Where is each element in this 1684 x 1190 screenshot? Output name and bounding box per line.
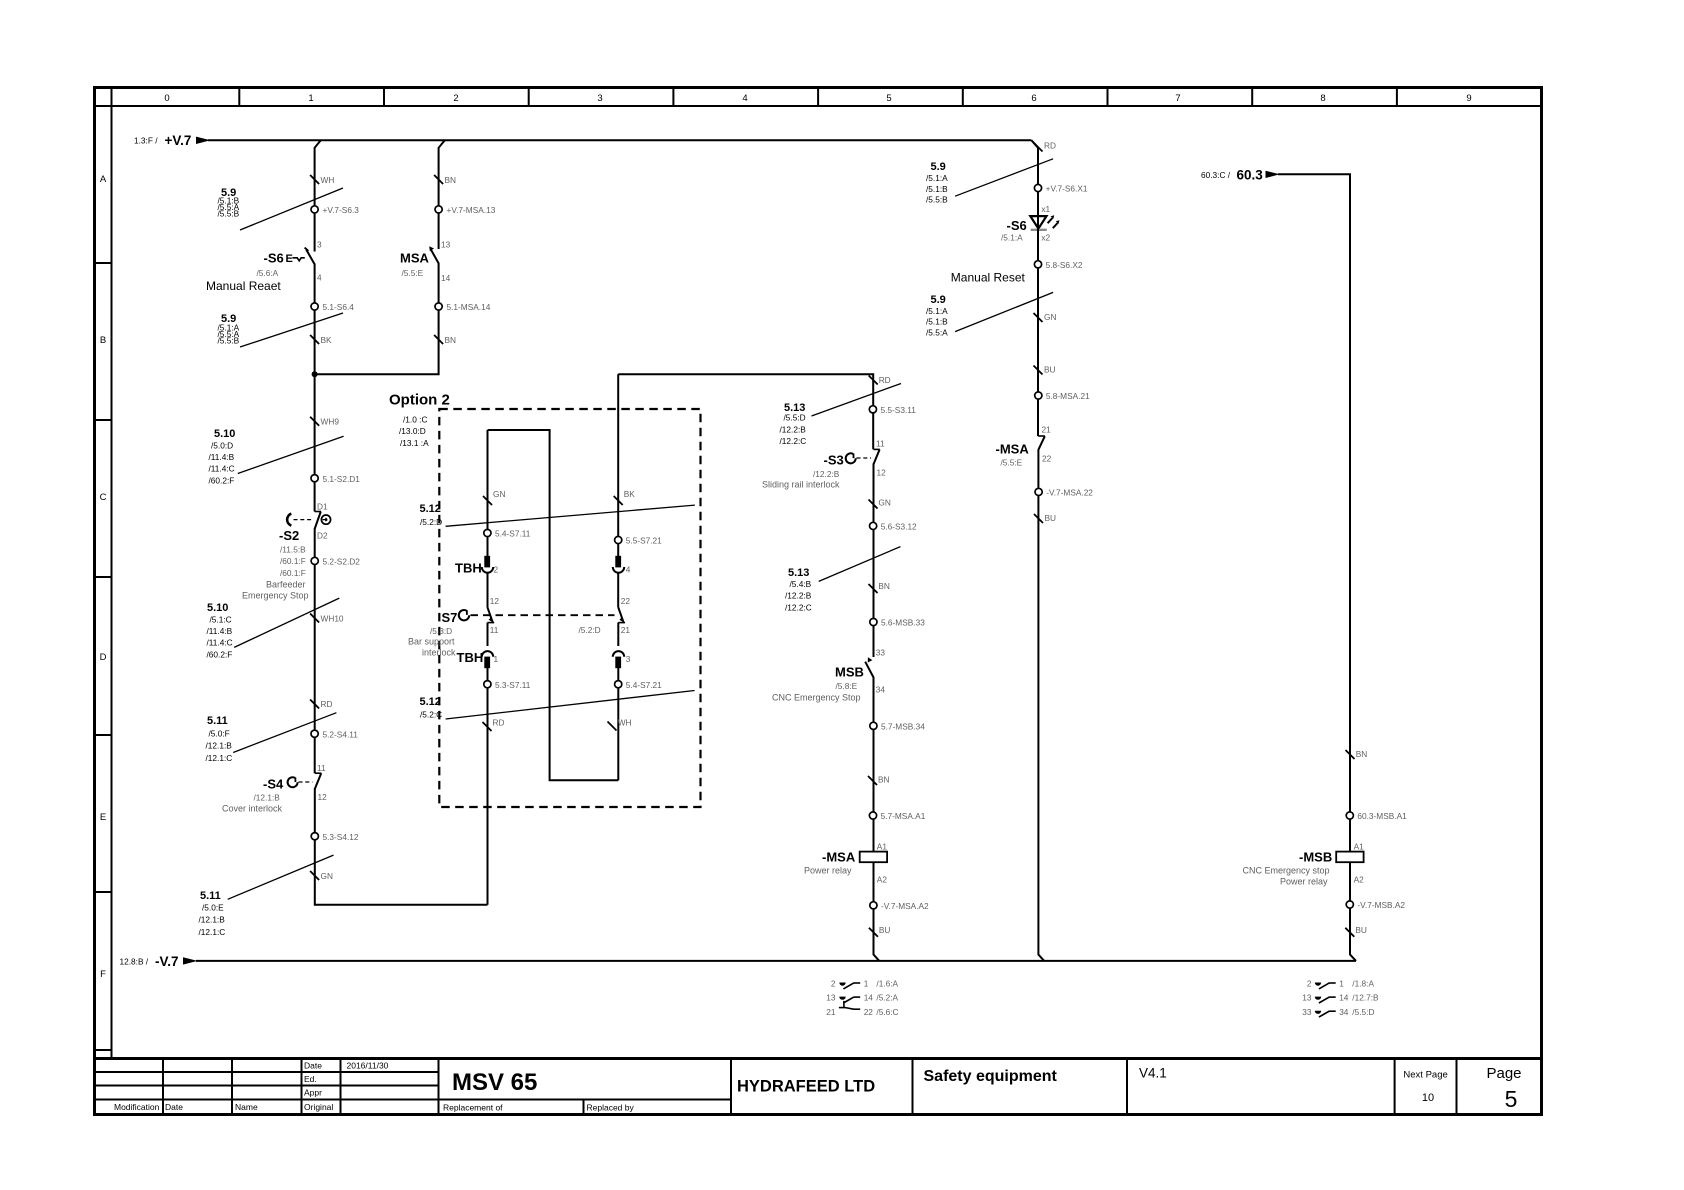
node 5.8-S6.X2 [1034, 260, 1082, 270]
cross-reference 5.12 (lower) [420, 691, 695, 720]
svg-text:/5.5:B: /5.5:B [926, 195, 948, 205]
svg-text:4: 4 [742, 93, 747, 104]
lamp TBH 4 (upper right) [613, 556, 631, 575]
svg-text:/5.5:E: /5.5:E [402, 268, 424, 278]
wire colour mark GN [869, 498, 891, 509]
svg-text:14: 14 [441, 273, 451, 283]
node 60.3-MSB.A1 [1346, 811, 1407, 821]
svg-text:3: 3 [597, 93, 602, 104]
node 5.5-S7.21 [615, 536, 663, 546]
svg-text:/12.2:C: /12.2:C [785, 603, 812, 613]
node +V.7-MSA.13 [435, 205, 496, 215]
svg-text:/60.1:F: /60.1:F [280, 568, 306, 578]
wire colour mark GN [1034, 312, 1057, 322]
svg-text:-MSB: -MSB [1299, 850, 1332, 865]
svg-text:5.1-MSA.14: 5.1-MSA.14 [447, 302, 491, 312]
wire: +V.7 rail end corner down to LED S6 [1032, 140, 1039, 230]
svg-text:/5.5:E: /5.5:E [1001, 458, 1023, 468]
wire colour mark BU [1345, 925, 1367, 937]
svg-text:5.11: 5.11 [200, 890, 221, 902]
svg-text:GN: GN [493, 489, 505, 499]
svg-text:/5.1:A: /5.1:A [926, 173, 948, 183]
wire colour mark GN [483, 489, 505, 505]
svg-text:5.5-S3.11: 5.5-S3.11 [881, 405, 917, 415]
svg-text:CNC Emergency stop: CNC Emergency stop [1243, 866, 1330, 876]
svg-text:Name: Name [235, 1102, 258, 1112]
svg-text:33: 33 [1302, 1007, 1312, 1017]
svg-text:5.1-S2.D1: 5.1-S2.D1 [323, 474, 361, 484]
svg-text:Replacement of: Replacement of [443, 1103, 503, 1113]
svg-text:F: F [100, 969, 106, 980]
svg-text:/13.1 :A: /13.1 :A [400, 438, 429, 448]
svg-text:60.3:C /: 60.3:C / [1201, 170, 1231, 180]
svg-text:5.2-S4.11: 5.2-S4.11 [323, 729, 359, 739]
svg-text:4: 4 [626, 565, 631, 575]
svg-text:Sliding rail interlock: Sliding rail interlock [762, 480, 840, 490]
svg-text:1: 1 [864, 979, 869, 989]
contact MSA 13/14 (NO contactor contact) [400, 246, 439, 278]
svg-text:V4.1: V4.1 [1139, 1066, 1167, 1081]
svg-text:Manual Reaet: Manual Reaet [206, 279, 281, 293]
svg-text:Bar support: Bar support [408, 637, 455, 647]
wire colour mark BU [869, 925, 891, 937]
svg-text:5.9: 5.9 [931, 294, 946, 306]
svg-text:3: 3 [626, 654, 631, 664]
svg-text:/12.1:C: /12.1:C [199, 927, 226, 937]
cross-reference 5.9 (to S6.4) [218, 313, 344, 347]
svg-text:HYDRAFEED LTD: HYDRAFEED LTD [737, 1078, 875, 1096]
cross-reference 5.11 (to S4.11) [206, 713, 337, 763]
svg-text:/12.2:B: /12.2:B [780, 424, 807, 434]
wire: S3 to MSB contact [873, 464, 875, 658]
svg-text:/5.6:A: /5.6:A [257, 268, 279, 278]
svg-text:-S3: -S3 [824, 453, 844, 468]
svg-text:RD: RD [1044, 141, 1056, 151]
svg-text:13: 13 [1302, 993, 1312, 1003]
svg-text:GN: GN [321, 871, 333, 881]
svg-text:-S6: -S6 [1007, 218, 1027, 233]
svg-text:/5.2:D: /5.2:D [579, 625, 601, 635]
svg-text:BU: BU [1355, 925, 1367, 935]
-V.7 supply rail [120, 954, 1357, 969]
svg-text:13: 13 [826, 993, 836, 1003]
node 5.6-S3.12 [870, 522, 918, 532]
svg-text:/5.1:B: /5.1:B [926, 184, 948, 194]
svg-text:8: 8 [1320, 93, 1325, 104]
S7 actuator (proximity switch) [408, 610, 615, 658]
svg-text:A2: A2 [877, 875, 888, 885]
svg-text:S7: S7 [442, 610, 458, 625]
svg-text:5.12: 5.12 [420, 503, 441, 515]
svg-text:Original: Original [304, 1102, 333, 1112]
svg-text:/5.3:D: /5.3:D [430, 626, 452, 636]
svg-text:1: 1 [1339, 979, 1344, 989]
node -V.7-MSA.A2 [870, 901, 929, 911]
wire: S4 down, corner to TBH left branch [315, 788, 488, 904]
svg-text:+V.7: +V.7 [165, 133, 192, 148]
svg-text:Ed.: Ed. [304, 1074, 317, 1084]
svg-text:/5.5:B: /5.5:B [218, 335, 240, 345]
svg-text:34: 34 [876, 685, 886, 695]
wire colour mark RD [483, 718, 505, 732]
svg-text:Replaced by: Replaced by [587, 1103, 635, 1113]
wire: TBH loop top and left side down [487, 430, 489, 556]
svg-text:5: 5 [886, 93, 891, 104]
svg-text:/1.6:A: /1.6:A [876, 979, 898, 989]
wire: branch from +V.7 to MSA contact (wire2) [439, 140, 445, 249]
wire colour mark BN [434, 335, 456, 345]
lamp TBH 1 (lower left) [457, 650, 499, 668]
S7 contact 22/21 [618, 608, 625, 623]
svg-text:/5.8:E: /5.8:E [836, 681, 858, 691]
svg-text:13: 13 [441, 240, 451, 250]
svg-text:/5.5:D: /5.5:D [1352, 1007, 1374, 1017]
svg-text:Power relay: Power relay [1280, 877, 1328, 887]
wire: right TBH branch from top rail corner down [617, 374, 619, 556]
indicator light -S6 (LED) [1001, 215, 1059, 242]
interlock switch -S3 (NC contact with actuator circle) [762, 449, 880, 489]
node 5.5-S3.11 [869, 405, 916, 415]
wire: branch from +V.7 to S6 contact (wire1 top) [315, 140, 321, 251]
wire colour mark BN (MSB chain) [1346, 749, 1368, 759]
svg-text:5.8-MSA.21: 5.8-MSA.21 [1046, 391, 1090, 401]
svg-text:9: 9 [1466, 93, 1471, 104]
svg-text:/5.1:A: /5.1:A [1001, 233, 1023, 243]
svg-text:/5.4:B: /5.4:B [790, 579, 812, 589]
svg-text:/12.7:B: /12.7:B [1352, 993, 1379, 1003]
svg-text:/60.1:F: /60.1:F [280, 556, 306, 566]
svg-text:2: 2 [831, 979, 836, 989]
node 5.4-S7.21 [615, 680, 663, 690]
svg-text:/5.5:A: /5.5:A [926, 327, 948, 337]
svg-text:5.1-S6.4: 5.1-S6.4 [323, 302, 355, 312]
svg-text:22: 22 [621, 596, 631, 606]
Option 2 dashed enclosure [389, 392, 701, 808]
+V.7 supply rail [134, 133, 1032, 148]
svg-text:/11.4:B: /11.4:B [207, 626, 233, 636]
node 5.6-MSB.33 [870, 618, 925, 628]
svg-text:11: 11 [317, 763, 326, 773]
svg-text:/5.0:E: /5.0:E [202, 903, 224, 913]
svg-text:/5.1:B: /5.1:B [926, 317, 948, 327]
wire colour mark BK [310, 335, 332, 345]
svg-text:/12.2:B: /12.2:B [813, 469, 840, 479]
wire: -MSA contact down to -V.7 rail [1038, 449, 1044, 961]
cross-reference 5.12 (upper) [420, 503, 695, 527]
svg-text:3: 3 [317, 240, 322, 250]
svg-text:GN: GN [1044, 312, 1056, 322]
node 5.1-MSA.14 [435, 302, 491, 312]
svg-text:1: 1 [494, 654, 499, 664]
svg-text:D: D [100, 652, 107, 663]
svg-text:BN: BN [878, 581, 890, 591]
node 5.3-S4.12 [311, 832, 359, 842]
svg-text:21: 21 [826, 1007, 836, 1017]
svg-text:Next Page: Next Page [1403, 1070, 1447, 1081]
node -V.7-MSB.A2 [1346, 900, 1405, 910]
svg-text:-S2: -S2 [279, 528, 299, 543]
svg-text:Page: Page [1486, 1065, 1521, 1082]
wire colour mark BN [869, 581, 890, 593]
svg-text:MSA: MSA [400, 251, 430, 266]
wire: down to MSB coil [1349, 754, 1351, 852]
svg-text:TBH: TBH [457, 650, 484, 665]
svg-text:21: 21 [621, 625, 631, 635]
svg-text:Manual Reset: Manual Reset [951, 271, 1026, 285]
emergency stop -S2 (NC contact with mushroom actuator and turn-release) [242, 512, 331, 601]
svg-text:/1.8:A: /1.8:A [1352, 979, 1374, 989]
svg-text:-V.7: -V.7 [155, 954, 179, 969]
svg-text:+V.7-S6.X1: +V.7-S6.X1 [1046, 184, 1088, 194]
svg-text:60.3: 60.3 [1237, 168, 1264, 183]
wire: top link from TBH right branch to S3 chain [618, 374, 873, 449]
svg-text:5.11: 5.11 [207, 715, 228, 727]
svg-text:/12.2:C: /12.2:C [780, 436, 807, 446]
wire: S7 to lamp TBH1 [487, 623, 489, 647]
wire: MSB coil down to -V.7 rail end [1350, 862, 1356, 961]
svg-text:-MSA: -MSA [996, 442, 1030, 457]
node 5.7-MSB.34 [870, 721, 925, 731]
svg-text:WH10: WH10 [321, 614, 344, 624]
svg-text:BN: BN [1356, 749, 1368, 759]
node 5.1-S6.4 [311, 302, 354, 312]
node -V.7-MSA.22 [1035, 488, 1093, 498]
svg-text:/12.1:B: /12.1:B [199, 915, 226, 925]
svg-text:5.8-S6.X2: 5.8-S6.X2 [1046, 260, 1083, 270]
svg-text:/5.2:D: /5.2:D [420, 517, 442, 527]
svg-text:/5.0:F: /5.0:F [209, 729, 230, 739]
svg-text:5.3-S4.12: 5.3-S4.12 [323, 832, 359, 842]
svg-text:/60.2:F: /60.2:F [209, 475, 235, 485]
svg-text:/5.5:B: /5.5:B [218, 208, 240, 218]
svg-text:5: 5 [1505, 1086, 1518, 1112]
wire colour mark GN [310, 871, 333, 881]
svg-text:-S6: -S6 [264, 251, 284, 266]
svg-text:GN: GN [878, 498, 890, 508]
svg-text:BN: BN [878, 775, 890, 785]
svg-text:22: 22 [864, 1007, 874, 1017]
interlock switch -S4 (NC contact with actuator circle) [222, 773, 321, 813]
wire: lamp4 to S7 contact right [617, 574, 619, 608]
svg-text:5.6-MSB.33: 5.6-MSB.33 [881, 618, 925, 628]
wire colour mark BU [1034, 365, 1056, 375]
node 5.4-S7.11 [484, 529, 531, 539]
wire: MSA coil down to -V.7 rail [874, 862, 880, 961]
S7 contact 12/11 [488, 608, 495, 623]
svg-text:5.9: 5.9 [931, 161, 946, 173]
svg-text:/5.0:D: /5.0:D [211, 440, 233, 450]
svg-text:5.13: 5.13 [788, 567, 809, 579]
svg-text:/60.2:F: /60.2:F [207, 649, 233, 659]
svg-text:Barfeeder: Barfeeder [266, 580, 306, 590]
row letter strip [95, 174, 112, 1050]
node 5.7-MSA.A1 [869, 811, 925, 821]
svg-text:A1: A1 [1354, 842, 1365, 852]
wire: loop top bar and right-side return [488, 430, 619, 780]
svg-text:/5.6:C: /5.6:C [876, 1007, 898, 1017]
cross-reference 5.9 (to S6.3) [218, 187, 344, 230]
svg-text:A: A [100, 174, 107, 185]
wire colour mark WH [608, 718, 632, 731]
wire colour mark RD [1034, 141, 1056, 152]
wire: lamp1 down to bottom of left loop [487, 668, 489, 905]
wire: MSA contact down to junction row [315, 263, 439, 375]
sheet outer border frame [95, 88, 1542, 1115]
svg-text:BU: BU [1045, 513, 1057, 523]
svg-text:5.6-S3.12: 5.6-S3.12 [881, 522, 917, 532]
contact -S6 (manual reset NO pushbutton) [206, 248, 315, 293]
svg-text:A2: A2 [1354, 875, 1365, 885]
svg-text:/12.1:B: /12.1:B [254, 793, 281, 803]
svg-text:E: E [100, 812, 106, 823]
wire colour mark RD [310, 699, 332, 709]
node 5.8-MSA.21 [1035, 391, 1090, 401]
junction dot wire1/wire2 [312, 371, 318, 377]
svg-text:Appr: Appr [304, 1088, 322, 1098]
svg-text:33: 33 [876, 648, 886, 658]
title block grid [95, 1059, 1542, 1115]
wire: lamp3 down to loop bottom [617, 668, 619, 780]
svg-text:D1: D1 [317, 502, 328, 512]
wire colour mark BN [868, 775, 890, 786]
svg-text:5.5-S7.21: 5.5-S7.21 [626, 536, 662, 546]
lamp TBH 3 (lower right) [613, 651, 631, 668]
svg-text:-V.7-MSA.22: -V.7-MSA.22 [1046, 488, 1093, 498]
contact -MSA 21/22 (NC) [996, 436, 1045, 468]
node +V.7-S6.3 [311, 205, 359, 215]
svg-text:6: 6 [1031, 93, 1036, 104]
svg-text:Cover interlock: Cover interlock [222, 804, 283, 814]
svg-text:WH: WH [618, 718, 632, 728]
wire: LED down to -MSA contact [1037, 229, 1039, 437]
svg-text:RD: RD [493, 718, 505, 728]
svg-text:11: 11 [876, 439, 885, 449]
svg-text:C: C [100, 492, 107, 503]
svg-text:x1: x1 [1041, 204, 1050, 214]
svg-text:14: 14 [864, 993, 874, 1003]
svg-text:RD: RD [321, 699, 333, 709]
svg-text:Date: Date [165, 1102, 183, 1112]
node 5.1-S2.D1 [311, 474, 360, 484]
svg-text:/12.1:B: /12.1:B [206, 741, 233, 751]
node +V.7-S6.X1 [1034, 184, 1087, 194]
node 5.3-S7.11 [484, 680, 531, 690]
cross-reference 5.13 (to MSB.33) [785, 547, 900, 613]
node 5.2-S2.D2 [311, 557, 360, 567]
svg-text:Safety equipment: Safety equipment [924, 1068, 1058, 1085]
svg-text:BK: BK [321, 335, 333, 345]
svg-text:BN: BN [445, 335, 457, 345]
MSB mirror contact table [1302, 979, 1379, 1018]
cross-reference 5.9 (to S6.X2) [926, 292, 1053, 337]
svg-text:/5.2:C: /5.2:C [420, 709, 442, 719]
cross-reference 5.13 (to S3.11) [780, 384, 902, 447]
wire colour mark RD [869, 375, 891, 385]
wire colour mark BK [614, 489, 636, 505]
svg-text:2: 2 [1307, 979, 1312, 989]
svg-text:BU: BU [1044, 365, 1056, 375]
svg-text:11: 11 [490, 625, 499, 635]
svg-text:12: 12 [318, 792, 328, 802]
svg-text:Date: Date [304, 1061, 322, 1071]
MSA mirror contact table [826, 979, 898, 1017]
cross-reference 5.11 (to S4.12) [199, 855, 334, 937]
svg-text:Power relay: Power relay [804, 866, 852, 876]
svg-text:TBH: TBH [455, 561, 482, 576]
svg-text:Option 2: Option 2 [389, 392, 450, 409]
svg-text:interlock: interlock [422, 648, 456, 658]
cross-reference 5.10 (to S4.11 via WH10) [207, 598, 340, 659]
svg-text:5.7-MSA.A1: 5.7-MSA.A1 [881, 811, 926, 821]
svg-text:2016/11/30: 2016/11/30 [347, 1061, 389, 1071]
svg-text:x2: x2 [1041, 233, 1050, 243]
wire colour mark BN [434, 175, 456, 185]
relay coil -MSA [804, 850, 887, 876]
svg-text:+V.7-MSA.13: +V.7-MSA.13 [447, 205, 496, 215]
wire: lamp2 to S7 contact [487, 574, 489, 608]
wire: S2 to S4 [314, 528, 316, 773]
svg-text:D2: D2 [317, 531, 328, 541]
svg-text:5.4-S7.21: 5.4-S7.21 [626, 680, 662, 690]
contact MSB 33/34 (NO contactor contact) [772, 657, 874, 702]
svg-text:-V.7-MSB.A2: -V.7-MSB.A2 [1357, 900, 1405, 910]
svg-text:1.3:F /: 1.3:F / [134, 136, 158, 146]
svg-text:1: 1 [308, 93, 313, 104]
svg-text:E: E [286, 253, 293, 265]
svg-text:5.12: 5.12 [420, 696, 441, 708]
svg-text:-MSA: -MSA [822, 850, 856, 865]
svg-text:60.3-MSB.A1: 60.3-MSB.A1 [1357, 811, 1407, 821]
svg-text:34: 34 [1339, 1007, 1349, 1017]
svg-text:/11.4:B: /11.4:B [209, 452, 235, 462]
svg-text:WH: WH [321, 175, 335, 185]
svg-text:-S4: -S4 [263, 777, 284, 792]
svg-text:5.2-S2.D2: 5.2-S2.D2 [323, 557, 361, 567]
svg-text:12: 12 [877, 468, 887, 478]
svg-text:2: 2 [494, 565, 499, 575]
svg-text:5.4-S7.11: 5.4-S7.11 [495, 529, 531, 539]
svg-text:/5.1:A: /5.1:A [926, 306, 948, 316]
svg-text:CNC Emergency Stop: CNC Emergency Stop [772, 693, 861, 703]
svg-text:A1: A1 [877, 842, 888, 852]
svg-text:BU: BU [879, 925, 891, 935]
60.3 feed arrow [1201, 168, 1350, 755]
wire colour mark WH10 [310, 614, 344, 624]
svg-text:/11.5:B: /11.5:B [280, 545, 306, 555]
svg-text:5.10: 5.10 [214, 428, 235, 440]
svg-text:4: 4 [317, 273, 322, 283]
node 5.2-S4.11 [311, 729, 358, 739]
svg-text:WH9: WH9 [321, 417, 340, 427]
svg-text:+V.7-S6.3: +V.7-S6.3 [323, 205, 360, 215]
wire: S6 contact to junction [314, 264, 316, 375]
svg-text:/5.5:D: /5.5:D [784, 412, 806, 422]
wire colour mark WH [310, 175, 334, 185]
svg-text:/13.0:D: /13.0:D [399, 426, 426, 436]
svg-text:10: 10 [1422, 1092, 1434, 1104]
wire: S7 right to lamp TBH3 [617, 623, 619, 647]
svg-text:BK: BK [624, 489, 636, 499]
svg-text:/11.4:C: /11.4:C [207, 638, 233, 648]
svg-text:0: 0 [164, 93, 169, 104]
column header band [95, 88, 1542, 1059]
svg-text:/5.1:C: /5.1:C [210, 614, 232, 624]
cross-reference 5.10 (to S2.D1) [209, 428, 344, 485]
lamp TBH 2 (upper left) [455, 556, 499, 576]
svg-text:5.3-S7.11: 5.3-S7.11 [495, 680, 531, 690]
wire: junction down to S2 contact [314, 374, 316, 511]
svg-text:Modification: Modification [114, 1102, 160, 1112]
